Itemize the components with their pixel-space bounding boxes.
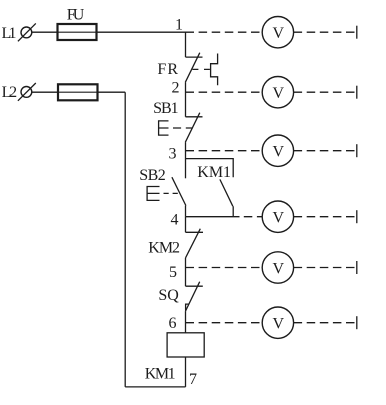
fuse FU (L2) bbox=[58, 84, 98, 100]
wire fuse FU to node 1 bbox=[97, 31, 186, 33]
terminal L1 bbox=[18, 23, 36, 41]
pushbutton contact SB1 (NC) bbox=[185, 113, 202, 143]
fuse FU (L1) bbox=[58, 24, 97, 40]
wire SB1 to SB2 bbox=[185, 142, 187, 178]
svg-text:KM1: KM1 bbox=[145, 365, 176, 382]
wire coil to node 7 bbox=[185, 357, 187, 387]
wire branch top (node 3 to KM1 contact) bbox=[186, 159, 234, 178]
svg-text:6: 6 bbox=[169, 315, 177, 332]
svg-text:2: 2 bbox=[172, 80, 180, 97]
svg-text:V: V bbox=[273, 316, 285, 333]
voltmeter V1 bbox=[262, 17, 293, 48]
wire KM2 to SQ bbox=[185, 258, 187, 286]
wire node 1 to FR contact bbox=[185, 32, 187, 57]
FR heater element bbox=[211, 54, 218, 86]
wire L1 to fuse FU bbox=[32, 31, 58, 33]
dashed actuator link FR contact to heater bbox=[193, 68, 211, 70]
svg-text:7: 7 bbox=[189, 371, 197, 388]
svg-text:V: V bbox=[273, 85, 285, 102]
svg-text:FU: FU bbox=[67, 7, 85, 24]
dashed link node 5 to voltmeter V5 bbox=[186, 267, 263, 269]
svg-text:SQ: SQ bbox=[158, 287, 179, 304]
voltmeter V6 bbox=[262, 307, 293, 338]
dashed link node 1 to voltmeter V1 bbox=[186, 31, 263, 33]
contactor contact KM2 (NC) bbox=[186, 229, 204, 258]
wire node 7 to L2 riser bbox=[125, 386, 185, 388]
svg-text:FR: FR bbox=[157, 61, 178, 78]
svg-text:V: V bbox=[273, 144, 285, 161]
svg-text:KM2: KM2 bbox=[148, 240, 180, 257]
wire SB2 to node 4 bbox=[185, 206, 187, 217]
SB2 manual actuator (E) bbox=[147, 187, 159, 201]
wire node 4 to KM2 bbox=[185, 217, 187, 233]
pushbutton contact SB2 (NO) bbox=[172, 177, 186, 205]
svg-text:SB2: SB2 bbox=[139, 167, 166, 184]
svg-text:V: V bbox=[273, 25, 285, 42]
voltmeter V5 bbox=[262, 252, 293, 283]
svg-text:L1: L1 bbox=[2, 25, 17, 42]
svg-text:KM1: KM1 bbox=[197, 164, 231, 181]
dashed link node 3 to voltmeter V3 bbox=[186, 150, 263, 152]
test terminal row 3 bbox=[356, 144, 358, 157]
dashed actuator link SB1 bbox=[173, 127, 193, 129]
test terminal row 2 bbox=[356, 86, 358, 99]
dashed actuator link SB2 bbox=[164, 192, 180, 194]
SB1 manual actuator (E) bbox=[159, 121, 169, 135]
dashed link node 6 to voltmeter V6 bbox=[186, 322, 263, 324]
wire L2 riser bbox=[124, 92, 126, 387]
svg-text:V: V bbox=[273, 210, 285, 227]
terminal L2 bbox=[18, 83, 36, 101]
voltmeter V4 bbox=[262, 201, 293, 232]
svg-text:V: V bbox=[273, 260, 285, 277]
dashed link V2 to test point bbox=[294, 91, 357, 93]
wire L2 to fuse bbox=[32, 91, 58, 93]
dashed link node 2 to voltmeter V2 bbox=[186, 91, 263, 93]
wire branch bottom (KM1 contact to node 4) bbox=[232, 206, 234, 217]
wire fuse to L2 riser bbox=[98, 91, 126, 93]
coil KM1 (contactor coil) bbox=[167, 333, 204, 357]
svg-text:L2: L2 bbox=[2, 84, 18, 101]
svg-text:SB1: SB1 bbox=[153, 100, 179, 117]
dashed link V5 to test point bbox=[294, 267, 357, 269]
dashed link node 4 to voltmeter V4 bbox=[244, 216, 262, 218]
thermal relay contact FR (NC) bbox=[185, 53, 202, 83]
svg-text:3: 3 bbox=[169, 146, 177, 163]
svg-text:5: 5 bbox=[169, 264, 177, 281]
voltmeter V3 bbox=[262, 135, 293, 166]
dashed link V4 to test point bbox=[294, 216, 357, 218]
test terminal row 1 bbox=[356, 26, 358, 39]
dashed link V6 to test point bbox=[294, 322, 357, 324]
wire FR to SB1 bbox=[185, 82, 187, 117]
dashed link V1 to test point bbox=[294, 31, 357, 33]
voltmeter V2 bbox=[262, 77, 293, 108]
contact KM1 (NO, aux of contactor) bbox=[220, 179, 233, 206]
wire node 4 junction bbox=[186, 216, 240, 218]
test terminal row 4 bbox=[356, 210, 358, 223]
svg-text:4: 4 bbox=[171, 212, 179, 229]
dashed link V3 to test point bbox=[294, 150, 357, 152]
test terminal row 6 bbox=[356, 316, 358, 329]
svg-text:1: 1 bbox=[175, 17, 183, 34]
test terminal row 5 bbox=[356, 261, 358, 274]
wire SQ to node 6 bbox=[185, 311, 187, 333]
limit switch contact SQ (NC) bbox=[186, 282, 203, 311]
